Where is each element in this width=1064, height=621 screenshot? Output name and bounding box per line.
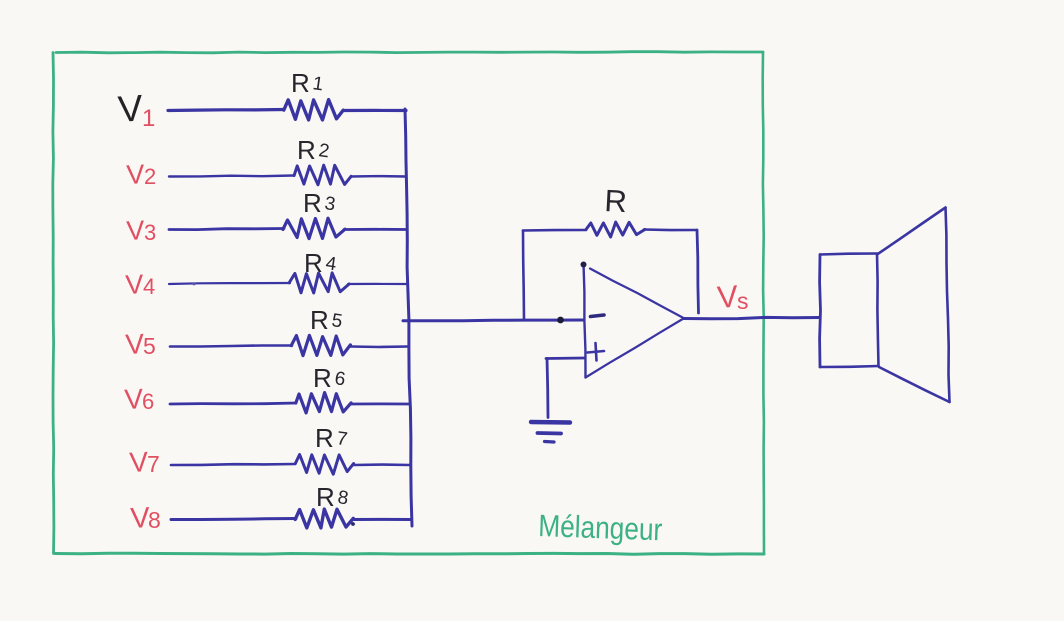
node V1 label (117, 87, 156, 132)
wire R6 to summing bus (350, 402, 409, 405)
svg-text:3: 3 (323, 193, 336, 215)
svg-text:R: R (604, 183, 628, 219)
resistor R (feedback) (586, 222, 645, 237)
svg-text:R: R (310, 305, 329, 335)
svg-text:s: s (737, 288, 749, 314)
wire feedback left vertical (523, 231, 524, 321)
label R6 (313, 363, 347, 393)
node V8 label (130, 502, 161, 535)
resistor R1 (284, 100, 343, 120)
op-amp non-inverting input plus sign (588, 343, 605, 361)
node V5 label (125, 328, 156, 360)
wire feedback top right segment (644, 228, 697, 231)
svg-text:8: 8 (336, 487, 349, 509)
wire R2 to summing bus (351, 175, 406, 178)
speaker LS1 body (820, 254, 879, 368)
svg-text:V: V (716, 279, 739, 315)
svg-text:R: R (304, 248, 323, 278)
node V3 label (126, 215, 157, 246)
wire ground lead (547, 359, 548, 418)
mixer block boundary (Mélangeur box) (53, 52, 764, 555)
resistor R6 (296, 393, 351, 413)
label R5 (310, 305, 344, 335)
speaker LS1 horn (877, 208, 950, 403)
label R1 (291, 68, 325, 98)
wire V8 to R8 (171, 519, 296, 520)
svg-text:V: V (126, 159, 146, 190)
pen dot at V4 wire start (192, 282, 195, 285)
svg-text:6: 6 (333, 368, 346, 390)
svg-text:R: R (313, 363, 332, 393)
op-amp U1 triangle (581, 262, 684, 378)
svg-text:7: 7 (335, 428, 348, 450)
wire R4 to summing bus (348, 283, 407, 285)
svg-text:6: 6 (142, 389, 154, 414)
node V6 label (124, 383, 155, 415)
svg-text:3: 3 (144, 220, 156, 245)
wire V1 to R1 (168, 110, 284, 111)
wire V2 to R2 (169, 176, 293, 177)
svg-text:8: 8 (148, 507, 161, 533)
svg-text:R: R (303, 188, 322, 218)
node V4 label (125, 269, 156, 300)
svg-text:1: 1 (142, 105, 155, 132)
svg-text:R: R (315, 423, 334, 453)
wire V3 to R3 (169, 229, 284, 230)
wire R5 to summing bus (351, 345, 408, 348)
node V7 label (129, 446, 160, 478)
wire R7 to summing bus (354, 463, 410, 466)
wire V7 to R7 (171, 464, 295, 465)
wire V5 to R5 (170, 346, 292, 347)
svg-text:R: R (297, 135, 316, 165)
wire R3 to summing bus (344, 228, 407, 231)
svg-text:4: 4 (324, 253, 338, 275)
svg-text:2: 2 (144, 164, 156, 189)
svg-text:V: V (126, 215, 146, 246)
svg-text:R: R (316, 482, 335, 512)
resistor R2 (294, 165, 351, 185)
svg-text:5: 5 (143, 333, 156, 359)
ground (531, 422, 570, 442)
summing bus vertical wire (405, 109, 412, 526)
label R8 (316, 482, 350, 512)
label R7 (315, 423, 349, 453)
svg-text:2: 2 (317, 140, 330, 162)
wire summing bus to op-amp inverting input (403, 319, 584, 323)
resistor R4 (289, 273, 349, 293)
svg-text:R: R (291, 68, 310, 98)
svg-text:7: 7 (147, 451, 160, 477)
op-amp inverting input minus sign (591, 315, 605, 317)
resistor R8 (295, 509, 353, 528)
svg-text:5: 5 (330, 310, 343, 332)
wire R1 to summing bus (344, 109, 406, 112)
wire op-amp output Vs to speaker (684, 317, 821, 318)
label R2 (297, 135, 331, 165)
wire R8 to summing bus (353, 518, 411, 521)
svg-text:1: 1 (311, 73, 324, 95)
resistor R7 (295, 455, 353, 475)
wire feedback right vertical (697, 230, 699, 313)
label R4 (304, 248, 338, 278)
resistor R3 (283, 218, 345, 238)
junction dot on inverting input wire (557, 317, 564, 324)
node V2 label (126, 159, 157, 190)
wire non-inverting input (546, 357, 584, 360)
svg-text:Mélangeur: Mélangeur (538, 508, 663, 547)
resistor R5 (291, 335, 350, 355)
wire V4 to R4 (169, 283, 290, 284)
period dot after resistor R8 (351, 522, 355, 526)
label R3 (303, 188, 337, 218)
node Vs label (716, 279, 748, 315)
svg-text:V: V (117, 87, 145, 130)
svg-text:4: 4 (143, 274, 155, 299)
svg-text:V: V (125, 269, 145, 300)
wire feedback top left segment (523, 229, 586, 232)
wire V6 to R6 (170, 403, 296, 404)
